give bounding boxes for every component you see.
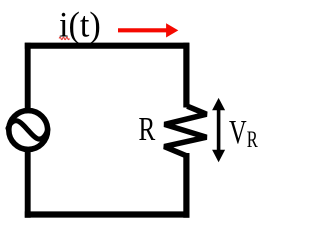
voltage arrow VR (double-headed) bbox=[212, 98, 225, 162]
wire left lower bbox=[25, 149, 31, 218]
resistor R bbox=[164, 106, 206, 156]
wire top bbox=[25, 43, 190, 49]
label VR bbox=[229, 114, 258, 152]
wire right lower bbox=[183, 153, 189, 218]
wire bottom bbox=[25, 211, 190, 217]
svg-text:V: V bbox=[229, 114, 247, 151]
label i(t) bbox=[59, 5, 101, 45]
svg-text:R: R bbox=[138, 110, 155, 148]
spellcheck squiggle under i bbox=[59, 37, 69, 39]
wire right upper bbox=[183, 43, 189, 108]
label R bbox=[138, 110, 155, 148]
AC source V1 bbox=[8, 111, 48, 150]
current arrow i(t) bbox=[118, 23, 178, 37]
wire left upper bbox=[25, 43, 31, 113]
svg-text:R: R bbox=[247, 127, 259, 152]
